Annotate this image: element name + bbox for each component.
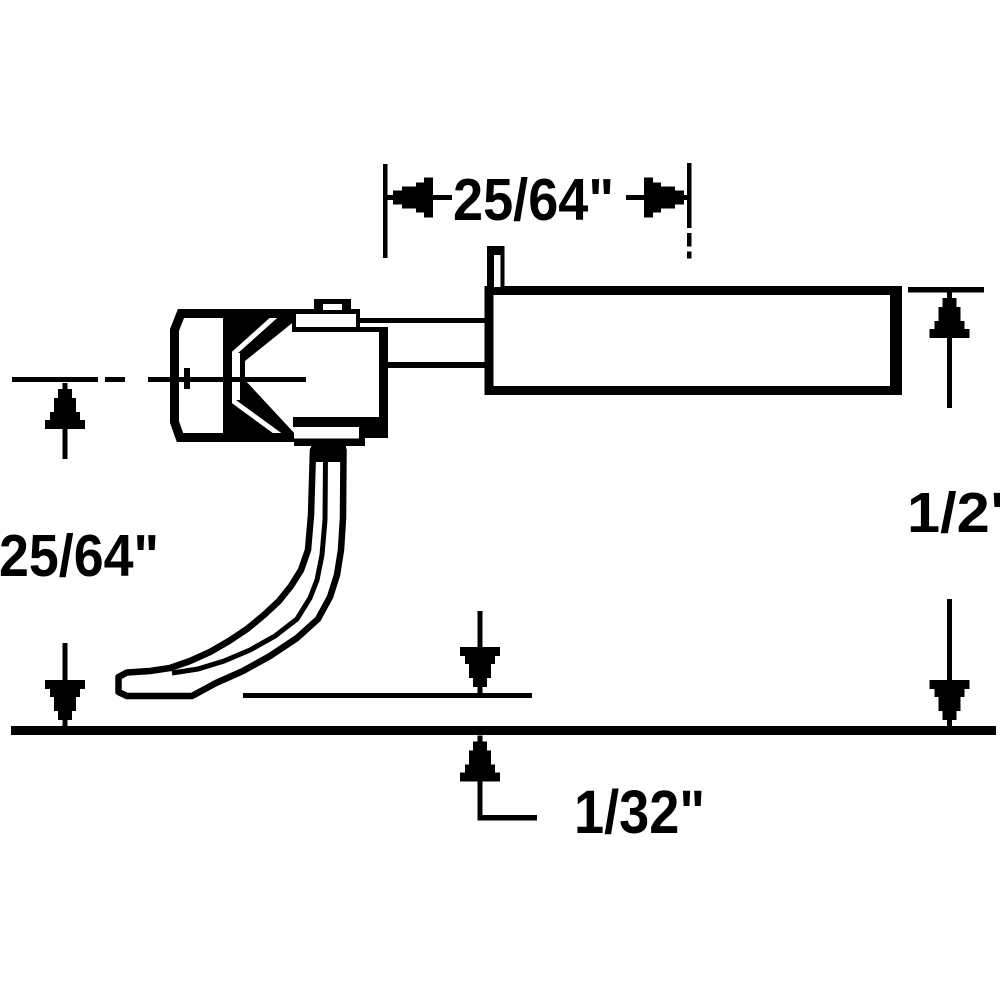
svg-text:25/64": 25/64" (0, 523, 159, 589)
svg-text:1/32": 1/32" (574, 778, 705, 846)
svg-text:25/64": 25/64" (453, 167, 614, 233)
svg-text:1/2": 1/2" (907, 481, 1000, 545)
